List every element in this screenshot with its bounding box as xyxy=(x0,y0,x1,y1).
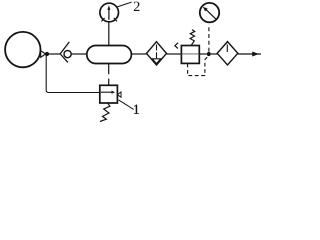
label 1 xyxy=(134,105,139,114)
node B (junction dot) xyxy=(207,52,211,56)
compressor (air source circle) xyxy=(5,32,40,67)
compressor outlet triangle xyxy=(41,51,46,58)
wire check valve to tank xyxy=(71,53,87,55)
wire node A to check valve xyxy=(49,53,61,55)
check valve ball xyxy=(64,51,71,58)
relief valve spring xyxy=(100,103,110,121)
leader line label 2 xyxy=(117,2,131,7)
gauge 2 left tick xyxy=(101,18,104,22)
output wire xyxy=(238,53,261,55)
output arrowhead xyxy=(252,52,259,57)
receiver tank xyxy=(87,46,132,64)
filter drain triangle xyxy=(152,59,160,64)
relief valve exhaust triangle xyxy=(117,92,121,97)
filter element dashes xyxy=(156,45,158,51)
regulator pilot line (dashed) xyxy=(188,56,209,76)
gauge 2 right tick xyxy=(114,18,117,22)
lubricator body (diamond) xyxy=(217,42,238,65)
node A (junction dot) xyxy=(45,52,49,56)
wire tank to filter xyxy=(131,53,146,55)
relief valve V1 body xyxy=(100,85,118,103)
regulator spring xyxy=(190,30,195,46)
lubricator drip line xyxy=(226,44,228,52)
regulator body xyxy=(181,46,199,64)
gauge needle xyxy=(206,10,217,20)
label 2 xyxy=(134,2,140,11)
filter F1 body (diamond) xyxy=(147,42,167,65)
wire node A down to relief valve xyxy=(46,56,100,93)
check valve seat xyxy=(60,42,69,63)
flow path through regulator xyxy=(181,53,199,55)
wire regulator to node B xyxy=(199,53,206,55)
wire tank to gauge 2 xyxy=(108,22,110,46)
pressure gauge (top right) body xyxy=(200,3,219,22)
relief valve flow arrow xyxy=(101,91,112,93)
gauge 2 arrow xyxy=(108,9,110,19)
pressure gauge (label 2) body xyxy=(100,3,119,22)
leader line label 1 xyxy=(119,100,134,110)
regulator adjustment arrowhead xyxy=(175,43,178,49)
wire filter to regulator xyxy=(167,53,182,55)
wire node B to lubricator xyxy=(211,53,217,55)
dashed line node B to gauge 3 xyxy=(208,24,210,51)
wire tank bottom to relief valve (broken) xyxy=(108,64,110,75)
